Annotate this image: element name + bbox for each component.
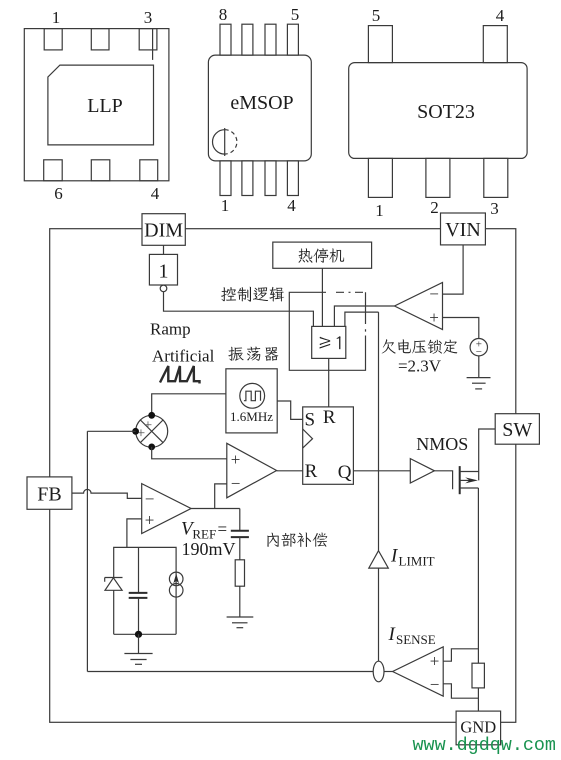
wire thermal to OR gate [321,268,323,326]
wire sense resistor to GND [477,688,479,711]
wire VIN to UVLO minus [443,245,464,294]
LLP bottom pad 6 [44,160,63,181]
svg-text:6: 6 [54,184,63,203]
wire multiplier to PWM comparator plus [152,447,227,459]
flip-flop clock trigger mark [303,429,313,448]
control logic label 控制逻辑 [221,287,284,302]
OR gate box [312,326,346,358]
current sense comparator [393,647,444,696]
eMSOP top pin 7 [242,24,253,55]
oscillator box [226,369,277,433]
wire sense comparator output to feedback [87,671,373,673]
svg-text:LLP: LLP [87,95,123,117]
wire oscillator to multiplier [152,394,226,416]
I_LIMIT current path with arrow [378,312,380,551]
svg-text:FB: FB [37,484,61,506]
svg-text:SW: SW [502,419,532,441]
LLP top pad 1 [44,29,62,50]
NMOS transistor Q1 [459,466,461,494]
svg-text:1.6MHz: 1.6MHz [230,409,273,424]
svg-text:+: + [430,652,440,671]
svg-text:3: 3 [490,199,499,218]
reference ground junction dot [135,631,142,638]
svg-text:1: 1 [159,261,169,283]
LLP top pad 2 [91,29,109,50]
PWM multiplier circle [136,415,168,447]
sawtooth ramp waveform [160,366,200,384]
svg-text:NMOS: NMOS [416,434,468,454]
reference network top rail [114,547,176,634]
eMSOP pin-1 indicator circle [213,130,225,154]
GND box [456,711,501,745]
wire flip-flop Q to driver [353,470,410,472]
eMSOP bottom pin 1 [220,161,231,196]
wire driver to NMOS gate [434,471,452,490]
reference capacitor [138,547,140,593]
multiplier left junction dot [132,428,139,435]
RS flip-flop U-ff [303,407,354,484]
multiplier top junction dot [148,412,155,419]
wire I_LIMIT into control logic [345,312,379,326]
svg-text:−: − [145,490,155,509]
gate driver buffer [410,459,434,483]
ground (reference) [138,634,140,653]
svg-text:www.dgdqw.com: www.dgdqw.com [413,735,556,756]
eMSOP package body [208,55,311,161]
oscillator clock symbol circle [240,383,265,408]
svg-text:1: 1 [52,8,61,27]
wire error amp plus to reference [127,519,142,548]
PWM comparator [227,443,277,498]
svg-text:5: 5 [291,5,300,24]
compensation resistor [235,560,244,586]
wire PWM comparator output to flip-flop R [277,470,303,472]
wire UVLO plus to reference source [443,318,479,339]
sense summing node ellipse [373,661,384,682]
wire oscillator to flip-flop S [277,401,303,419]
LLP bottom pad 5 [91,160,110,181]
inverter 1 box [149,254,177,285]
VIN box [441,213,486,245]
svg-text:190mV: 190mV [182,539,236,559]
svg-text:LIMIT: LIMIT [399,554,435,569]
svg-text:+: + [429,308,439,327]
eMSOP bottom pin 4 [287,161,298,196]
reference voltage source 2.3V [470,339,487,356]
wire NMOS source down to sense resistor [477,488,479,663]
svg-text:−: − [429,285,439,304]
wire feedback into multiplier left [87,430,135,432]
svg-text:1: 1 [221,196,230,215]
control logic boundary box (dash-dot) [289,292,365,370]
thermal shutdown box 热停机 [273,242,372,268]
wire FB to error amp minus (with hop) [72,489,142,498]
UVLO comparator U-uvlo [395,283,443,330]
wire NMOS drain to SW [479,429,496,480]
wire sense comparator plus to resistor top [443,649,478,661]
compensation capacitor [239,509,241,531]
DIM box [142,214,185,246]
svg-text:8: 8 [219,5,228,24]
feedback vertical wire [86,431,88,671]
ground (UVLO reference) [467,377,491,379]
svg-text:SENSE: SENSE [396,632,436,647]
svg-text:1: 1 [375,201,384,220]
svg-text:Q: Q [338,462,352,483]
svg-text:3: 3 [144,8,153,27]
svg-text:R: R [305,461,318,482]
error amplifier [142,484,191,534]
wire DIM to 1-box [163,245,165,254]
SOT23 package body [349,63,527,159]
svg-text:4: 4 [287,196,296,215]
LLP bottom pad 4 [140,160,158,181]
svg-text:VIN: VIN [445,219,481,241]
FB box [27,477,72,509]
eMSOP top pin 6 [265,24,276,55]
wire UVLO output to OR gate [334,306,394,326]
svg-text:GND: GND [460,718,496,737]
SOT23 top pin 5 [368,26,392,63]
svg-text:DIM: DIM [144,220,183,242]
eMSOP bottom pin 2 [242,161,253,196]
eMSOP bottom pin 3 [265,161,276,196]
SOT23 bottom pin 3 [484,158,508,197]
svg-text:=: = [218,520,228,539]
LLP die pad [48,65,154,145]
svg-text:4: 4 [151,184,160,203]
LLP pin3 marker line [152,29,154,60]
LLP top pad 3 [139,29,157,50]
svg-text:+: + [145,511,155,530]
SOT23 bottom pin 1 [368,158,392,197]
IC block outer border [50,229,516,723]
multiplier bottom junction dot [148,444,155,451]
svg-text:−: − [430,675,440,694]
svg-text:−: − [231,474,241,493]
LLP package outline [24,29,169,181]
eMSOP top pin 8 [220,24,231,55]
wire error amp output to PWM comparator minus [191,484,240,509]
internal compensation label 内部补偿 [267,532,327,547]
svg-text:S: S [305,410,316,431]
current source [169,572,183,586]
wire 1-box to OR gate [164,292,314,327]
oscillator label 振荡器 [228,347,278,361]
ground (compensation) [227,616,254,618]
inverter output bubble [160,285,167,292]
svg-text:SOT23: SOT23 [417,101,475,123]
svg-text:eMSOP: eMSOP [230,92,293,114]
UVLO label 欠电压锁定 [382,339,458,353]
svg-text:R: R [323,407,336,428]
SOT23 bottom pin 2 [426,158,450,197]
svg-text:+: + [231,450,241,469]
wire sense comparator minus to resistor bottom [443,684,478,698]
svg-text:Ramp: Ramp [150,320,191,339]
svg-text:=2.3V: =2.3V [398,357,442,376]
svg-text:4: 4 [496,6,505,25]
SW box [495,414,539,445]
wire OR output to flip-flop R [328,358,330,407]
svg-text:5: 5 [372,6,381,25]
svg-text:Artificial: Artificial [152,347,215,366]
svg-text:2: 2 [430,198,439,217]
zener diode [105,578,122,591]
SOT23 top pin 4 [483,26,507,63]
eMSOP top pin 5 [287,24,298,55]
sense resistor [472,663,484,688]
